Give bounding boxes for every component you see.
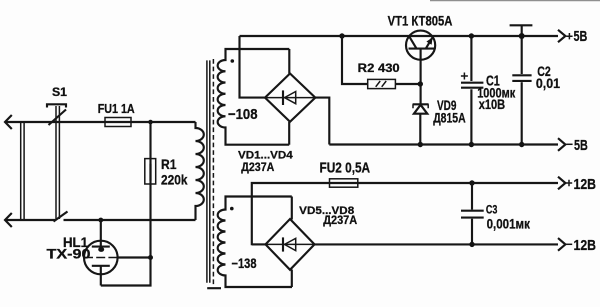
node zener bottom bbox=[418, 142, 423, 147]
wire bridge2 bottom corner bbox=[291, 270, 293, 288]
svg-text:VT1 КТ805А: VT1 КТ805А bbox=[388, 13, 453, 28]
node junction HL1 top bbox=[98, 218, 103, 223]
svg-text:ТХ-90: ТХ-90 bbox=[47, 247, 91, 262]
node C2 bottom bbox=[519, 142, 524, 147]
wire bridge1 right corner to -rail bbox=[315, 98, 329, 145]
label S1 bbox=[52, 87, 68, 99]
label 0,001mk bbox=[487, 215, 531, 231]
switch S1 pole lines bbox=[56, 106, 59, 219]
svg-text:0,01: 0,01 bbox=[536, 75, 560, 91]
node C1 top bbox=[469, 33, 474, 38]
svg-text:12В: 12В bbox=[574, 176, 597, 193]
label FU2 0,5A bbox=[320, 161, 371, 177]
svg-text:12В: 12В bbox=[574, 237, 597, 254]
label -138 bbox=[232, 256, 257, 271]
switch S1 top bar bbox=[47, 104, 66, 107]
svg-text:FU2 0,5A: FU2 0,5A bbox=[320, 161, 371, 177]
resistor R1 bbox=[145, 159, 156, 184]
label +5V bbox=[566, 28, 587, 45]
node C3 top bbox=[469, 180, 474, 185]
winding II polarity dot bbox=[230, 207, 234, 211]
node R2/base bbox=[418, 81, 423, 86]
label VT1 KT805A bbox=[388, 13, 453, 28]
lamp HL1 bbox=[84, 220, 151, 286]
switch S1 lever bottom bbox=[54, 212, 68, 222]
node junction R1 top bbox=[148, 120, 153, 125]
label VD9 bbox=[437, 97, 457, 113]
label -12V bbox=[566, 237, 596, 254]
bridge rectifier VD1-VD4 bbox=[265, 74, 315, 122]
wire -12V rail bbox=[315, 243, 559, 245]
label FU1 1A bbox=[98, 101, 135, 116]
label R2 430 bbox=[358, 62, 400, 75]
wire +12V rail bbox=[252, 183, 558, 245]
wire mains top bbox=[5, 121, 196, 123]
label VD5...VD8 bbox=[299, 205, 354, 217]
transformer core bbox=[207, 60, 210, 282]
transformer secondary winding I (-108) bbox=[218, 49, 290, 145]
label x10V bbox=[479, 96, 505, 112]
switch S1 lever top bbox=[49, 110, 67, 126]
label HL1 bbox=[63, 235, 88, 250]
wire -5V rail bbox=[329, 143, 558, 145]
wire R1 vertical bbox=[101, 122, 151, 286]
transformer screen terminal bar bbox=[207, 287, 221, 289]
mains plug arrow bottom bbox=[5, 213, 12, 227]
zener diode VD9 bbox=[413, 104, 429, 144]
label 0,01 bbox=[536, 75, 560, 91]
node C1 bottom bbox=[469, 142, 474, 147]
svg-text:R2 430: R2 430 bbox=[358, 62, 400, 75]
svg-text:Д237А: Д237А bbox=[323, 213, 357, 227]
wire bridge1 top corner to winding bbox=[288, 49, 290, 74]
winding I polarity dot bbox=[231, 59, 235, 63]
node C2 top bbox=[519, 33, 525, 39]
mains plug arrow top bbox=[5, 115, 12, 129]
label D237A top bbox=[241, 160, 274, 174]
svg-text:−108: −108 bbox=[228, 107, 258, 123]
wire bridge1 bottom corner bbox=[288, 122, 290, 145]
svg-text:R1: R1 bbox=[161, 157, 177, 172]
label -5V bbox=[566, 137, 588, 154]
top edge scan line bbox=[430, 0, 600, 2]
node rail/R2 bbox=[339, 33, 344, 38]
node C3 bottom bbox=[469, 242, 474, 247]
label -108 bbox=[228, 107, 258, 123]
capacitor C1 bbox=[461, 36, 484, 145]
node junction HL1/R1 bottom bbox=[148, 255, 153, 260]
label C3 bbox=[486, 202, 498, 216]
svg-text:S1: S1 bbox=[52, 87, 68, 99]
label C2 bbox=[537, 63, 551, 79]
label C1 bbox=[486, 74, 500, 90]
transistor VT1 bbox=[406, 31, 435, 104]
svg-text:C3: C3 bbox=[486, 202, 498, 216]
svg-text:Д237А: Д237А bbox=[241, 160, 274, 174]
svg-text:5В: 5В bbox=[574, 28, 588, 45]
fuse FU2 bbox=[330, 179, 358, 187]
transformer T1 primary winding bbox=[196, 122, 204, 220]
label D815A bbox=[433, 110, 466, 125]
transformer secondary winding II (-138) bbox=[218, 197, 292, 288]
label 220k bbox=[161, 173, 188, 188]
wire +5V rail bbox=[240, 35, 559, 37]
svg-text:−138: −138 bbox=[232, 256, 257, 271]
label 1000mk bbox=[477, 84, 516, 100]
svg-text:Д815А: Д815А bbox=[433, 110, 466, 125]
arrow -12V output bbox=[558, 238, 565, 251]
fuse FU1 bbox=[105, 118, 131, 127]
label +12V bbox=[566, 176, 596, 193]
wire mains bottom bbox=[5, 219, 196, 221]
svg-text:220k: 220k bbox=[161, 173, 188, 188]
svg-text:5В: 5В bbox=[574, 137, 588, 154]
capacitor C3 bbox=[461, 183, 484, 244]
wire bridge2 top corner bbox=[291, 197, 293, 220]
label TX-90 bbox=[47, 247, 91, 262]
wire bridge2 left corner bbox=[252, 243, 266, 245]
arrow -5V output bbox=[558, 138, 565, 151]
label D237A bottom bbox=[323, 213, 357, 227]
arrow +12V output bbox=[558, 177, 565, 190]
svg-text:х10В: х10В bbox=[479, 96, 505, 112]
transformer screen (dashed) bbox=[212, 59, 214, 285]
svg-text:FU1 1A: FU1 1A bbox=[98, 101, 135, 116]
svg-text:0,001мк: 0,001мк bbox=[487, 215, 531, 231]
resistor R2 bbox=[342, 36, 420, 89]
wire bridge1 left corner to +rail bbox=[240, 36, 266, 98]
plug prong lines left bbox=[21, 122, 24, 220]
arrow +5V output bbox=[558, 30, 565, 42]
capacitor C2 bbox=[510, 25, 533, 144]
bridge rectifier VD5-VD8 bbox=[266, 219, 315, 270]
label VD1...VD4 bbox=[238, 149, 293, 161]
label R1 bbox=[161, 157, 177, 172]
